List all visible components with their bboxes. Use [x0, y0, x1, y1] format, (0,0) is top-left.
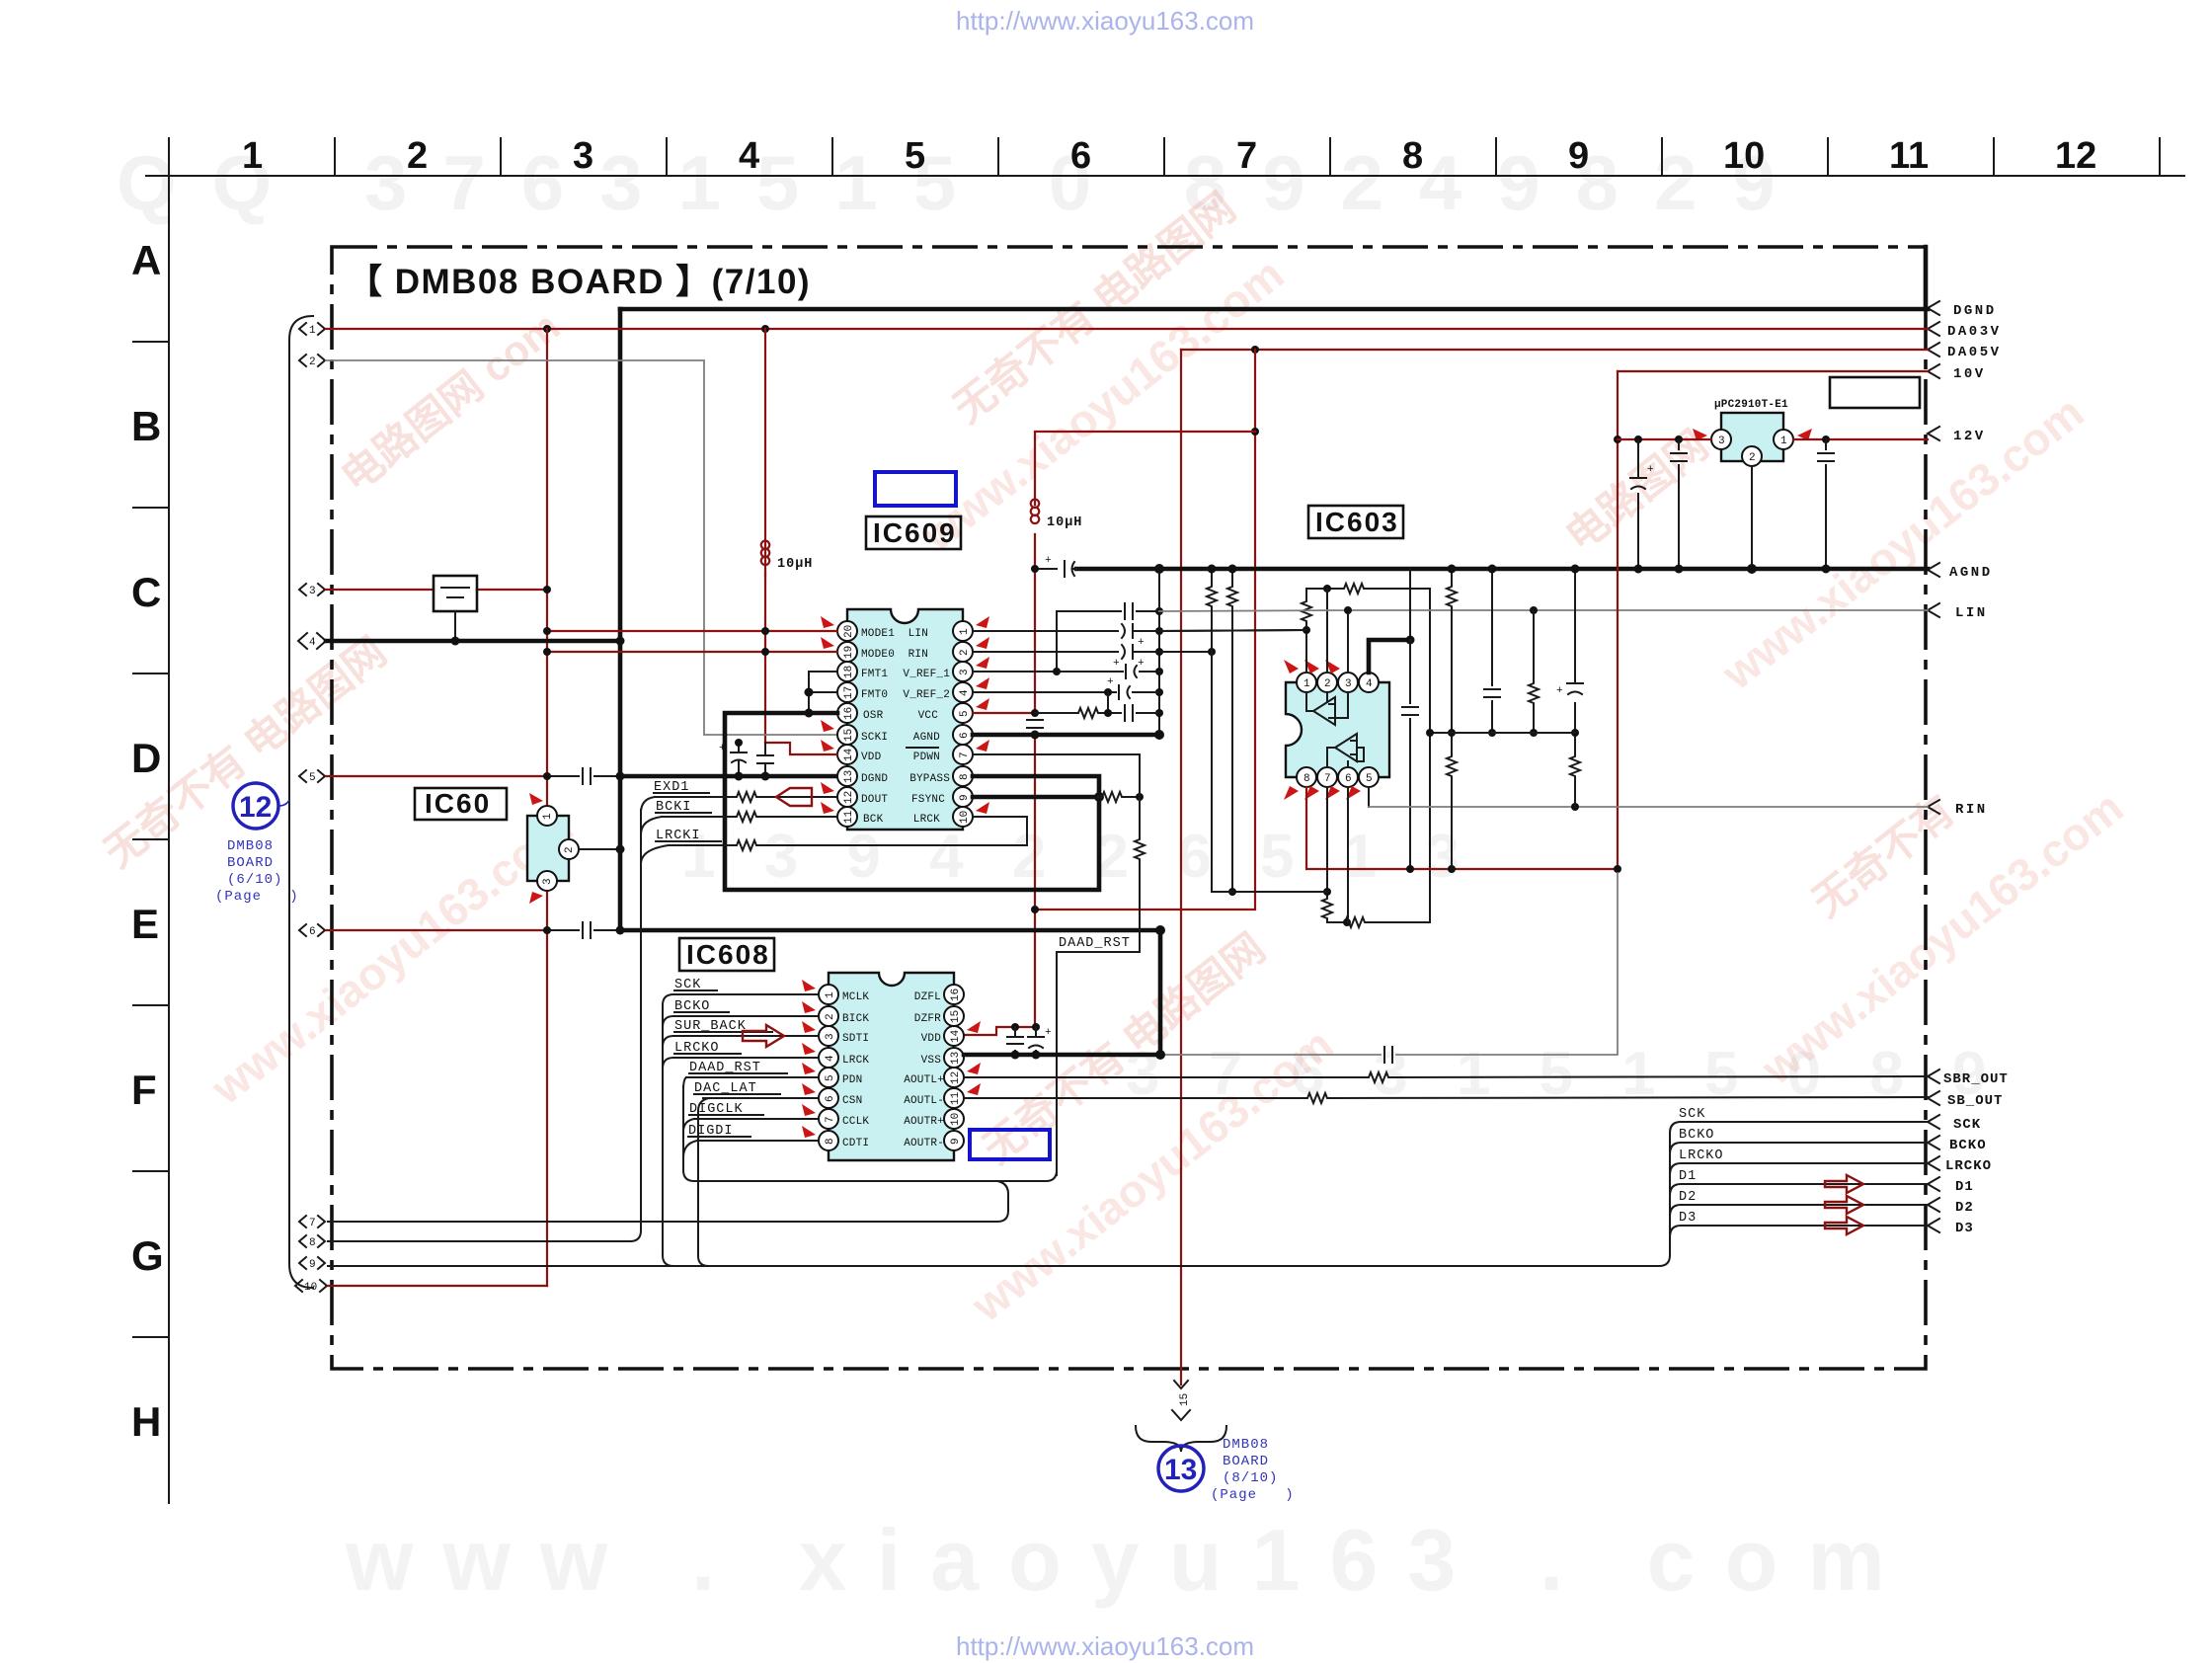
- resistor VCC row: [1074, 708, 1100, 718]
- wire CDTI input: [697, 1140, 819, 1142]
- node 12V label: [1928, 427, 1986, 444]
- svg-text:11: 11: [950, 1091, 962, 1105]
- svg-text:3: 3: [309, 586, 316, 597]
- lower board connector 15 symbol: [1172, 1381, 1191, 1420]
- wire SDTI input: [673, 1035, 819, 1037]
- svg-text:10: 10: [304, 1282, 317, 1294]
- wire SCK line: [1670, 1122, 1928, 1133]
- svg-text:10μH: 10μH: [777, 557, 813, 572]
- battery symbol on pin3 line: [434, 576, 477, 641]
- red arrow reg pin3: [1693, 429, 1707, 440]
- svg-text:10μH: 10μH: [1047, 515, 1082, 530]
- resistor on FSYNC line: [1098, 792, 1124, 802]
- wire connector pin9 / bus lower run: [328, 1265, 1659, 1267]
- svg-text:PDWN: PDWN: [913, 752, 940, 763]
- node SBR_OUT label: [1928, 1069, 2009, 1087]
- component column x=1511: [1491, 569, 1493, 733]
- svg-text:4: 4: [309, 637, 316, 649]
- svg-text:5: 5: [905, 135, 925, 177]
- wire IC603 pin1 feedback: [1306, 589, 1430, 922]
- svg-text:AOUTL-: AOUTL-: [904, 1095, 944, 1107]
- svg-text:DAAD_RST: DAAD_RST: [1059, 936, 1131, 951]
- IC609 pin names: [861, 628, 950, 826]
- svg-text:AOUTR+: AOUTR+: [904, 1116, 944, 1128]
- junction dots on supply row: [1406, 865, 1414, 873]
- wire LRCK return loop: [669, 817, 1027, 845]
- wire CCLK entry to control bus: [683, 1119, 694, 1132]
- svg-text:BOARD: BOARD: [1223, 1454, 1269, 1469]
- board border solid top-right segment: [1924, 247, 1929, 309]
- wire DOUT with resistor: [655, 796, 837, 798]
- wire VDD jog (red): [765, 743, 837, 754]
- wire IC603 pin6: [1347, 787, 1349, 922]
- svg-text:7: 7: [1236, 135, 1257, 177]
- resistor pin7 drop: [1322, 895, 1332, 920]
- IC60 regulator label box: [415, 788, 507, 820]
- junction dot pin6/1174: [1154, 730, 1164, 740]
- svg-text:C: C: [131, 569, 161, 615]
- svg-text:DA05V: DA05V: [1947, 345, 2002, 360]
- wire connector pin2 to SCKI (gray): [326, 360, 837, 735]
- wire IC603 pin4 AGND (thick): [1369, 640, 1410, 673]
- connector pin 7: [299, 1216, 325, 1229]
- svg-text:9: 9: [309, 1259, 316, 1271]
- svg-text:7: 7: [825, 1116, 836, 1123]
- connector pin 1: [299, 323, 325, 337]
- svg-text:DMB08: DMB08: [227, 838, 274, 854]
- svg-text:www . xiaoyu163 . com: www . xiaoyu163 . com: [345, 1511, 1915, 1609]
- svg-text:+: +: [1647, 464, 1654, 476]
- wire PDWN/DAAD drop with resistor: [1139, 797, 1141, 952]
- svg-text:+: +: [1113, 658, 1120, 670]
- svg-text:20: 20: [843, 625, 855, 638]
- svg-text:11: 11: [843, 810, 855, 824]
- svg-text:1: 1: [309, 325, 316, 337]
- grid ruler left line: [168, 176, 170, 1503]
- node DGND label: [1928, 301, 1997, 319]
- svg-text:D3: D3: [1955, 1221, 1974, 1236]
- wire BCKO line: [1670, 1143, 1928, 1153]
- IC603 label box: [1308, 506, 1403, 538]
- connector ref circle 12: [233, 783, 289, 829]
- resistor op2 feedback: [1341, 917, 1367, 927]
- svg-text:9: 9: [959, 794, 971, 801]
- wire PDWN pin7: [973, 754, 1140, 797]
- connector pin 10: [295, 1280, 327, 1294]
- blue empty box at AOUTR-: [970, 1130, 1050, 1159]
- wire red rail x=775 (IC609 VDD feed): [764, 329, 766, 743]
- svg-text:QQ 37631515 0 89249829: QQ 37631515 0 89249829: [117, 139, 1811, 226]
- capacitor electrolytic at AGND bus left end: [1035, 555, 1076, 577]
- wire DA03V net from connector pin1: [326, 328, 1928, 330]
- wire RIN line: [1369, 806, 1928, 808]
- wire 10V rail decoupling (gray): [1160, 873, 1618, 1055]
- capacitor VDD decouple 2: [757, 743, 773, 776]
- svg-text:10: 10: [950, 1113, 962, 1126]
- svg-text:FMT1: FMT1: [861, 669, 888, 680]
- wire LRCK input: [673, 1057, 819, 1059]
- inductor 10uH (IC609 VCC): [1031, 500, 1083, 530]
- svg-text:12: 12: [239, 791, 272, 824]
- svg-text:D1: D1: [1955, 1179, 1974, 1195]
- svg-text:G: G: [131, 1232, 164, 1279]
- svg-text:BICK: BICK: [842, 1013, 869, 1025]
- svg-text:2: 2: [1324, 678, 1331, 690]
- svg-text:OSR: OSR: [863, 710, 884, 722]
- IC603 bottom pins: [1297, 767, 1379, 787]
- wire y=903 link: [1232, 891, 1327, 893]
- svg-text:12: 12: [2055, 135, 2096, 177]
- capacitor 10V out: [1818, 439, 1834, 569]
- wire VDD red jog caps: [1011, 1023, 1019, 1031]
- capacitor electrolytic row 660: [1122, 645, 1145, 670]
- svg-text:1: 1: [242, 135, 263, 177]
- node LIN label: [1928, 603, 1988, 621]
- IC608 red pin arrows left: [802, 980, 816, 1138]
- wire x=1248 from AGND: [1231, 569, 1233, 892]
- wire VCC feed with inductor x=1048: [1035, 432, 1255, 910]
- svg-text:6: 6: [309, 926, 316, 938]
- svg-text:http://www.xiaoyu163.com: http://www.xiaoyu163.com: [956, 1631, 1254, 1661]
- wire IC603 pin8 supply (red): [1306, 371, 1618, 869]
- wire DGND to IC609 pin13 (thick): [620, 774, 837, 779]
- regulator uPC2910 body: [1711, 413, 1793, 466]
- hollow arrow SUR_BACK: [743, 1025, 784, 1047]
- capacitor (electrolytic) VDD decouple: [719, 743, 747, 776]
- svg-text:VDD: VDD: [921, 1033, 942, 1045]
- svg-text:12: 12: [843, 791, 855, 804]
- svg-text:16: 16: [843, 707, 855, 720]
- svg-text:LIN: LIN: [908, 628, 928, 640]
- svg-text:B: B: [131, 403, 161, 449]
- wire V_REF_1 row y=680: [973, 671, 1159, 673]
- node AGND label: [1928, 563, 1993, 581]
- svg-text:DA03V: DA03V: [1947, 324, 2002, 340]
- svg-text:(8/10): (8/10): [1223, 1470, 1278, 1486]
- svg-text:CCLK: CCLK: [842, 1116, 869, 1128]
- svg-text:4: 4: [959, 689, 971, 696]
- svg-text:+: +: [1138, 658, 1145, 670]
- bus exits to IC608 inputs: [663, 994, 673, 1069]
- wire y=742 node: [1430, 732, 1575, 734]
- hollow arrow D2: [1825, 1196, 1863, 1214]
- component column x=1553: [1533, 610, 1535, 733]
- wire BICK input: [673, 1015, 819, 1017]
- connector 13 brace: [1136, 1426, 1226, 1452]
- svg-text:+: +: [1556, 685, 1563, 697]
- svg-text:+: +: [719, 743, 726, 754]
- svg-text:μPC2910T-E1: μPC2910T-E1: [1714, 399, 1788, 411]
- svg-text:6: 6: [825, 1095, 836, 1102]
- svg-text:10: 10: [1723, 135, 1765, 177]
- capacitor VDD decouple: [1007, 1027, 1023, 1055]
- svg-text:16: 16: [950, 989, 962, 1001]
- svg-text:17: 17: [843, 686, 855, 699]
- svg-text:9: 9: [1568, 135, 1589, 177]
- svg-text:D1: D1: [1679, 1169, 1697, 1184]
- capacitor VCC decouple at x=1048: [1027, 720, 1043, 728]
- svg-text:2: 2: [309, 356, 316, 368]
- grid row letters: [131, 237, 164, 1445]
- svg-text:FMT0: FMT0: [861, 689, 888, 701]
- svg-text:8: 8: [1402, 135, 1423, 177]
- component column x=1470: [1451, 569, 1453, 869]
- junction dots VSS: [1011, 1051, 1020, 1060]
- resistor SB_OUT: [1303, 1093, 1329, 1103]
- wire DOUT left curl / digital bus vertical: [641, 797, 655, 813]
- IC603 top pins: [1297, 673, 1379, 692]
- svg-text:5: 5: [825, 1074, 836, 1081]
- wire OSR/BYPASS loop (thick): [725, 713, 1099, 890]
- wire CSN input: [703, 1097, 819, 1099]
- IC609 right pins: [953, 621, 973, 827]
- dac IC608 body: [829, 973, 954, 1160]
- junction dots MODE lines: [543, 627, 551, 635]
- wire LRCKI left curl: [641, 845, 669, 864]
- component column x=1595: [1574, 569, 1576, 807]
- wire branch to connector pin7: [328, 1181, 1008, 1222]
- wire connector pin5 DGND-analog (red then cap then thick): [326, 775, 547, 777]
- wire MODE1: [547, 630, 837, 632]
- svg-text:VCC: VCC: [918, 710, 939, 722]
- wire BCK with resistor: [662, 816, 837, 818]
- op IC609 body: [847, 609, 963, 830]
- svg-text:DMB08: DMB08: [1223, 1437, 1269, 1453]
- svg-text:4: 4: [1366, 678, 1373, 690]
- junction dot VCC row: [1104, 709, 1112, 717]
- IC609 label box: [866, 516, 961, 549]
- svg-text:(Page ): (Page ): [215, 889, 299, 905]
- svg-text:14: 14: [950, 1029, 962, 1043]
- svg-text:E: E: [131, 901, 159, 947]
- node DA03V label: [1928, 322, 2002, 340]
- junction dots FMT tie: [805, 688, 814, 697]
- op-amp IC603 body: [1286, 682, 1389, 777]
- hollow arrow D3: [1825, 1217, 1863, 1234]
- connector CN (left) brace: [289, 316, 313, 1288]
- wire x=1428 cap branch: [1409, 640, 1411, 869]
- black empty box top right: [1830, 377, 1920, 408]
- svg-text:15: 15: [843, 729, 855, 742]
- svg-text:DZFL: DZFL: [914, 991, 941, 1003]
- wire DA05V net: [1181, 349, 1928, 351]
- svg-text:AOUTL+: AOUTL+: [904, 1074, 944, 1086]
- svg-text:BCKO: BCKO: [1949, 1138, 1987, 1153]
- svg-text:SDTI: SDTI: [842, 1033, 869, 1045]
- svg-text:3: 3: [573, 135, 593, 177]
- svg-text:1: 1: [1780, 436, 1787, 447]
- board border dash-dot box: [332, 247, 1926, 1369]
- svg-text:BOARD: BOARD: [227, 855, 274, 871]
- node D3 label: [1928, 1219, 1974, 1236]
- wire PDN input: [686, 1076, 819, 1078]
- svg-text:2: 2: [564, 846, 576, 853]
- wire LIN coupling row y=639: [973, 630, 1306, 631]
- IC609 red pin arrows right: [976, 616, 989, 814]
- wire AGND bus (thick): [1076, 567, 1928, 572]
- svg-text:4: 4: [739, 135, 759, 177]
- svg-text:+: +: [1045, 1027, 1052, 1039]
- svg-text:VDD: VDD: [861, 752, 882, 763]
- junction dot x=1048/y=921: [1031, 906, 1039, 913]
- capacitor on 10V/VSS link: [1384, 1047, 1392, 1063]
- resistor feedback top: [1340, 584, 1366, 594]
- junction dot DA05V x=1271: [1251, 346, 1259, 354]
- svg-text:DOUT: DOUT: [861, 794, 888, 806]
- wire connector pin10 (red): [328, 1285, 547, 1287]
- svg-text:+: +: [1138, 637, 1145, 649]
- svg-text:5: 5: [959, 710, 971, 717]
- wire D3 line: [1670, 1226, 1928, 1236]
- svg-text:9: 9: [950, 1138, 962, 1145]
- hollow arrow EXD1 (points left): [776, 788, 812, 806]
- junction dot VCC rail / AGND cap: [1031, 565, 1039, 573]
- svg-text:10: 10: [959, 811, 971, 824]
- wire reg pin2 to AGND: [1751, 466, 1753, 569]
- wire IC603 pin3 from LIN: [1347, 610, 1349, 673]
- wire AGND vertical x=1174: [1158, 569, 1160, 735]
- wire VCC row (red then black): [973, 712, 1035, 714]
- IC609 red pin arrows left: [821, 616, 834, 814]
- connector pin 6: [299, 924, 325, 938]
- svg-text:13: 13: [950, 1052, 962, 1065]
- wire RIN coupling row y=660: [973, 651, 1212, 653]
- wire connector pin3 net (red): [326, 589, 547, 591]
- IC608 right pins: [944, 985, 964, 1150]
- wire DGND bus (thick, top): [620, 307, 1928, 312]
- svg-text:19: 19: [843, 646, 855, 659]
- wire cap row y=619: [1057, 611, 1159, 672]
- wire red rail x=1196 (DA05V to lower connector): [1180, 350, 1182, 1369]
- svg-text:8: 8: [959, 773, 971, 780]
- svg-text:H: H: [131, 1398, 161, 1445]
- svg-text:6: 6: [959, 732, 971, 739]
- junction dot FSYNC: [1094, 792, 1104, 802]
- svg-text:D: D: [131, 735, 161, 781]
- wire AOUTL- to SB_OUT: [964, 1097, 1928, 1098]
- junction dot pin3/rail: [543, 586, 551, 594]
- svg-text:18: 18: [843, 666, 855, 678]
- op-amp triangle A (inside IC603): [1306, 692, 1348, 725]
- resistor on DOUT line: [733, 792, 758, 802]
- svg-text:(6/10): (6/10): [227, 872, 282, 888]
- svg-text:SB_OUT: SB_OUT: [1947, 1093, 2003, 1109]
- capacitor electrolytic row 680: [1113, 658, 1137, 678]
- svg-text:8: 8: [1303, 773, 1310, 785]
- svg-text:IC603: IC603: [1315, 507, 1399, 537]
- svg-text:V_REF_1: V_REF_1: [903, 669, 950, 680]
- svg-text:3: 3: [1345, 678, 1352, 690]
- wire IC603 pin5 from RIN: [1368, 787, 1370, 807]
- capacitor row 619: [1125, 603, 1133, 619]
- wire vertical digital-gnd rail x=628: [618, 309, 623, 930]
- junction dot FSYNC/PDWN: [1136, 793, 1144, 801]
- capacitor VCC row: [1125, 705, 1133, 721]
- svg-text:LRCKO: LRCKO: [1679, 1148, 1724, 1163]
- wire connector pin4 (thick black): [326, 639, 620, 644]
- red arrow IC60 pin1: [529, 793, 543, 805]
- svg-text:CDTI: CDTI: [842, 1138, 869, 1149]
- node LRCKO label: [1928, 1156, 1992, 1174]
- svg-text:MCLK: MCLK: [842, 991, 869, 1003]
- svg-text:8: 8: [309, 1237, 316, 1249]
- wire LIN line: [1159, 610, 1928, 611]
- junction dot vref2: [1104, 688, 1112, 696]
- connector pin 3: [299, 584, 325, 597]
- connector destination text DMB08 BOARD (8/10): [1211, 1437, 1295, 1503]
- junction dot vref1: [1053, 668, 1061, 675]
- blue empty box above IC609: [875, 472, 956, 506]
- wire CDTI entry: [683, 1141, 697, 1157]
- wire VSS (thick): [964, 1053, 1160, 1058]
- svg-text:11: 11: [1889, 135, 1929, 177]
- svg-text:http://www.xiaoyu163.com: http://www.xiaoyu163.com: [956, 6, 1254, 36]
- grid column numbers: [242, 135, 2096, 177]
- wire LRCKO line: [1670, 1163, 1928, 1174]
- wire D1 line: [1670, 1184, 1928, 1195]
- wire MCLK input: [673, 993, 819, 995]
- svg-text:VSS: VSS: [921, 1055, 942, 1067]
- svg-text:BYPASS: BYPASS: [909, 773, 950, 785]
- connector pin 2: [299, 355, 325, 368]
- svg-text:13: 13: [1164, 1454, 1197, 1486]
- svg-text:DGND: DGND: [1953, 303, 1997, 319]
- svg-text:3: 3: [1718, 436, 1725, 447]
- svg-text:MODE1: MODE1: [861, 628, 895, 640]
- svg-text:LIN: LIN: [1955, 605, 1988, 621]
- svg-text:2: 2: [1749, 452, 1756, 464]
- junction dots pin4 line: [451, 637, 460, 646]
- svg-text:3: 3: [825, 1033, 836, 1040]
- wire DAAD_RST bridge: [1057, 952, 1140, 1175]
- wire IC60 pin2 to gnd rail: [579, 848, 620, 850]
- IC608 red pin arrows right: [967, 1021, 981, 1095]
- junction dots pin7: [1323, 888, 1331, 896]
- svg-text:12V: 12V: [1953, 429, 1986, 444]
- svg-text:2: 2: [959, 649, 971, 656]
- red arrow reg pin1: [1797, 429, 1812, 440]
- wire AOUTL+ to SBR_OUT: [964, 1076, 1928, 1077]
- grid ruler top ticks: [169, 138, 2160, 176]
- wire VSS bus from pin6 (thick): [620, 930, 1160, 1055]
- wire connector pin6 (red then cap): [326, 929, 547, 931]
- svg-text:SCK: SCK: [1679, 1107, 1705, 1122]
- svg-text:10V: 10V: [1953, 366, 1986, 382]
- wire y=638 stub to LIN caps: [1159, 630, 1306, 631]
- red arrow IC60 pin3: [529, 892, 543, 904]
- capacitor electrolytic row 639: [1122, 624, 1145, 649]
- junction dots on VDD/DGND: [735, 739, 743, 747]
- junction dots LIN: [1344, 606, 1352, 614]
- grid ruler left ticks: [133, 342, 169, 1337]
- svg-text:V_REF_2: V_REF_2: [903, 689, 950, 701]
- capacitor on pin5 line: [583, 768, 591, 784]
- junction dot VSS corner: [1155, 925, 1165, 935]
- IC60 regulator body: [527, 806, 579, 891]
- svg-text:A: A: [131, 237, 161, 283]
- capacitor electrolytic row 701: [1107, 676, 1130, 699]
- IC608 label box: [679, 938, 774, 971]
- bus vertical left: [663, 1005, 673, 1266]
- wire CSN drop: [698, 1098, 709, 1266]
- node RIN label: [1928, 800, 1988, 818]
- svg-text:AOUTR-: AOUTR-: [904, 1138, 944, 1149]
- svg-text:2: 2: [825, 1013, 836, 1020]
- wire 12V rail: [1618, 438, 1928, 440]
- wire FSYNC thin with resistor: [1098, 796, 1140, 798]
- junction dots pin5 line: [543, 772, 551, 780]
- svg-text:3: 3: [542, 878, 554, 885]
